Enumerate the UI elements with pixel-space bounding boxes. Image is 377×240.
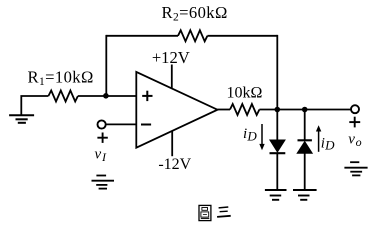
wire: resistor to node B	[259, 109, 304, 111]
resistor R2	[178, 30, 207, 41]
terminal vI	[98, 120, 106, 128]
caption 圖三 (drawn glyphs)	[199, 205, 231, 220]
op-amp inverting input marker	[141, 124, 151, 126]
supply wire +12V	[171, 65, 173, 89]
ground (D2)	[293, 190, 317, 200]
wire: feedback top right segment	[207, 35, 277, 37]
ground (vo) with minus bar	[344, 162, 367, 175]
svg-text:vo: vo	[348, 132, 361, 149]
glyph 圖 outer box	[199, 205, 211, 220]
op-amp U1	[136, 72, 217, 148]
svg-text:-12V: -12V	[158, 156, 191, 173]
svg-text:iD: iD	[321, 135, 335, 152]
wire: R1 to op-amp non-inverting input	[78, 95, 137, 97]
resistor 10k (output)	[230, 104, 259, 115]
node B junction dot	[275, 107, 281, 113]
op-amp + input marker	[142, 91, 152, 101]
node C junction dot	[302, 107, 308, 113]
ground (input, far left)	[9, 115, 34, 123]
svg-text:+12V: +12V	[152, 48, 190, 67]
glyph 圖 inner hui	[201, 212, 209, 217]
label + (vI polarity)	[97, 133, 107, 143]
glyph 三 strokes	[219, 206, 229, 209]
label + (vo polarity)	[349, 117, 360, 128]
wire: op-amp output	[218, 109, 231, 111]
ground (D1)	[265, 190, 287, 200]
supply wire -12V	[171, 131, 173, 156]
wire: feedback right drop	[276, 35, 278, 110]
current arrow iD (D2)	[316, 125, 321, 152]
resistor R1	[48, 91, 78, 102]
current arrow iD (D1)	[259, 124, 264, 150]
node A junction dot	[103, 93, 109, 99]
wire: feedback top left segment	[106, 35, 178, 37]
wire: vI to op-amp inverting input	[106, 123, 137, 125]
svg-text:R2=60kΩ: R2=60kΩ	[162, 3, 228, 24]
svg-text:iD: iD	[243, 126, 257, 143]
wire: node C to vo terminal	[305, 109, 351, 111]
glyph 圖 inner mouth	[202, 208, 208, 211]
terminal vo	[351, 105, 359, 113]
diode D2 (cathode up)	[297, 110, 312, 191]
svg-text:R1=10kΩ: R1=10kΩ	[28, 68, 94, 89]
wire: feedback left drop	[105, 35, 107, 96]
ground (vI) with minus bar	[92, 176, 115, 189]
svg-text:10kΩ: 10kΩ	[227, 85, 263, 102]
diode D1 (cathode down)	[270, 110, 286, 191]
wire: R1 left lead with ground stub	[21, 96, 48, 115]
